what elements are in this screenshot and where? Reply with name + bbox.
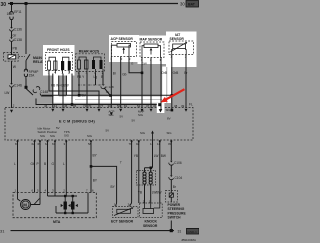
svg-text:5V: 5V	[106, 129, 110, 133]
svg-text:B: B	[44, 162, 46, 166]
relay contact	[26, 54, 30, 60]
mta switch blade	[34, 199, 40, 205]
white highlight vertical pair at IAT	[162, 67, 166, 104]
svg-text:SWITCH: SWITCH	[168, 216, 182, 220]
svg-text:7: 7	[120, 161, 122, 165]
svg-text:Gb: Gb	[31, 162, 35, 166]
wire ecm to mta 2	[34, 140, 36, 193]
wire ecm to psp	[170, 140, 172, 161]
svg-text:FL: FL	[189, 102, 193, 106]
wire C138 to relay	[11, 42, 13, 55]
rear sensor element 1	[92, 60, 95, 69]
white highlight vertical pair from FRONT pin4	[53, 76, 58, 103]
front sensor element 1	[61, 61, 64, 70]
wire ecm to ect 2	[130, 140, 132, 207]
wire 30 bus	[8, 3, 178, 5]
red annotation arrow	[161, 89, 185, 102]
svg-text:C 128: C 128	[105, 85, 114, 89]
PSP switch box	[166, 191, 178, 203]
wire map pin3	[141, 58, 143, 109]
wire ecm to mta 6	[65, 140, 67, 193]
BAT box	[186, 1, 199, 8]
svg-text:37: 37	[146, 104, 150, 108]
wire mta rail bottom	[56, 193, 88, 214]
GND box	[187, 228, 200, 234]
svg-text:OrB: OrB	[161, 71, 167, 75]
svg-text:SIG: SIG	[167, 131, 173, 135]
mta actuator bar 2	[71, 202, 75, 210]
knock piezo element	[143, 209, 154, 214]
connector C106	[170, 161, 172, 163]
node H1 dots	[78, 94, 81, 97]
relay coil	[8, 55, 16, 59]
svg-text:PB: PB	[13, 47, 18, 51]
svg-text:MTA: MTA	[53, 220, 61, 224]
svg-text:PB Y: PB Y	[77, 75, 85, 79]
svg-text:71: 71	[83, 104, 87, 108]
connector C138	[10, 37, 12, 39]
rear bracket wires	[79, 57, 101, 60]
wire mta motor left	[18, 193, 21, 202]
svg-text:12: 12	[150, 142, 154, 146]
svg-text:EF11: EF11	[14, 10, 22, 14]
ECT SENSOR box	[113, 207, 139, 218]
svg-text:39: 39	[181, 104, 185, 108]
knock shield coils	[143, 172, 152, 184]
wire ecm to mta 5	[54, 140, 56, 193]
svg-text:70: 70	[88, 104, 92, 108]
wire knock 2 lower	[150, 184, 152, 203]
rear heater element 1	[78, 60, 81, 69]
svg-text:30: 30	[180, 2, 185, 7]
wire ecm to mta 1	[17, 140, 19, 193]
ECM pin numbers top	[13, 104, 185, 108]
svg-text:L: L	[63, 162, 65, 166]
wire C148 out	[40, 94, 56, 97]
wire labels below ecm	[14, 154, 166, 195]
svg-text:44: 44	[54, 104, 58, 108]
wire mta motor right	[31, 193, 40, 205]
map potentiometer	[144, 44, 158, 48]
svg-text:M: M	[23, 203, 27, 208]
mta pin numbers	[15, 189, 95, 193]
svg-text:LW: LW	[154, 154, 159, 158]
wire ecm to knock drain	[145, 140, 153, 172]
node ect branch dot	[90, 165, 93, 168]
rear sensor element 2	[100, 60, 103, 69]
wire C136 to C138	[11, 31, 13, 37]
wire front pin3 L-run	[49, 74, 99, 109]
wire C146 to ECM	[11, 87, 13, 108]
wire ecm to mta 4	[47, 140, 49, 193]
wire acp pin1	[110, 57, 112, 109]
MTA box	[13, 193, 96, 218]
svg-text:SIG: SIG	[40, 134, 46, 138]
svg-text:52: 52	[137, 104, 141, 108]
svg-text:30: 30	[1, 2, 7, 8]
svg-text:46: 46	[44, 104, 48, 108]
svg-text:JB910048A: JB910048A	[181, 238, 196, 242]
svg-text:45: 45	[64, 104, 68, 108]
mta actuator bar 1	[64, 202, 67, 210]
svg-text:SIG: SIG	[64, 134, 70, 138]
svg-text:L: L	[14, 162, 16, 166]
svg-text:C146: C146	[14, 84, 22, 88]
motor M	[21, 200, 31, 210]
svg-text:C106: C106	[174, 161, 182, 165]
svg-text:BW: BW	[161, 154, 166, 158]
fuse F/PMP 15A	[24, 69, 27, 78]
wire ecm to knock 1	[138, 140, 140, 203]
white highlight horizontal pair	[53, 96, 166, 102]
wire fuse to C136	[11, 22, 13, 28]
FRONT HO2S box	[43, 45, 75, 76]
svg-text:36: 36	[153, 104, 157, 108]
svg-text:SIG: SIG	[87, 134, 93, 138]
wire psp to ground	[170, 221, 172, 231]
svg-text:C136: C136	[14, 28, 22, 32]
wire C128 to H1	[104, 88, 110, 95]
wire ect branch	[91, 166, 117, 206]
wire rear pin4	[86, 73, 88, 108]
wire iat pin1	[171, 55, 173, 111]
svg-text:SIG: SIG	[140, 131, 146, 135]
node bus dot 2	[25, 2, 28, 5]
svg-text:SIG: SIG	[138, 113, 144, 117]
rear pin stubs	[79, 69, 103, 73]
svg-text:35: 35	[73, 104, 77, 108]
fuse EF11	[10, 10, 13, 22]
wire knock 1 lower	[144, 184, 146, 203]
wire contact down to fuse	[25, 61, 27, 71]
wire acp pin3 to map	[129, 57, 142, 73]
wire iat pin2	[185, 55, 187, 109]
svg-text:SIG: SIG	[166, 108, 172, 112]
knock shield dashed box	[137, 171, 156, 186]
svg-text:ACP SENSOR: ACP SENSOR	[111, 37, 134, 41]
svg-text:81: 81	[124, 104, 128, 108]
svg-text:PBV: PBV	[80, 94, 87, 98]
svg-text:MAP SENSOR: MAP SENSOR	[140, 38, 163, 42]
svg-text:5V: 5V	[120, 115, 124, 119]
KNOCK SENSOR box	[140, 203, 163, 218]
mta node dots	[64, 195, 66, 197]
wire map pin1	[160, 58, 162, 105]
svg-text:31: 31	[178, 229, 182, 233]
svg-text:10A: 10A	[7, 12, 14, 16]
ECM exit arrow up	[151, 131, 154, 134]
wire mta rail top	[48, 193, 78, 197]
svg-text:15A: 15A	[29, 73, 36, 77]
iat thermistor	[173, 44, 186, 49]
svg-text:BW: BW	[156, 191, 161, 195]
wire mta bars stubs	[55, 193, 73, 214]
wire left drop x=11	[11, 4, 13, 11]
front heater element 2	[54, 61, 57, 70]
svg-text:Gr: Gr	[106, 90, 109, 94]
svg-text:65: 65	[38, 142, 42, 146]
wire front pair1 right edge	[58, 76, 60, 96]
svg-text:8V: 8V	[167, 117, 171, 121]
dash-dot heater link	[78, 84, 102, 86]
wire H2 riser	[36, 99, 160, 105]
mech link relay to contact	[19, 56, 26, 58]
node iat sig dot	[171, 109, 174, 112]
wire rear pin1	[95, 73, 97, 85]
front pin stubs	[49, 70, 69, 74]
svg-text:C148: C148	[40, 90, 48, 94]
node map rail dot	[141, 72, 144, 75]
wire rear pin3	[78, 73, 80, 95]
svg-text:30: 30	[108, 104, 112, 108]
svg-text:Gb: Gb	[122, 73, 126, 77]
ECM bottom pin numbers	[15, 142, 172, 146]
svg-text:SIG: SIG	[109, 113, 115, 117]
node fuse-out junction	[25, 86, 28, 89]
wire front pin4 edge	[52, 74, 54, 109]
wire acp pin2	[120, 57, 122, 109]
svg-text:PB W+GBW: PB W+GBW	[51, 83, 69, 87]
svg-text:5V: 5V	[132, 119, 136, 123]
svg-text:SIG: SIG	[50, 134, 56, 138]
svg-text:E C M (SIRIUS D4): E C M (SIRIUS D4)	[59, 119, 96, 123]
white highlight vertical pair from FRONT pin2	[66, 76, 71, 98]
node bus dot 1	[10, 2, 13, 5]
connector C104	[170, 175, 172, 177]
ECM exit arrows bottom	[16, 141, 172, 144]
white halo for highlighted ECM entry	[157, 103, 165, 113]
acp potentiometer	[117, 44, 131, 48]
svg-text:SENSOR: SENSOR	[170, 37, 185, 41]
svg-text:YB: YB	[138, 191, 142, 195]
svg-text:OrB: OrB	[173, 71, 179, 75]
ect thermistor	[117, 209, 131, 213]
svg-text:C104: C104	[175, 176, 183, 180]
svg-text:LW: LW	[5, 91, 11, 95]
svg-text:SENSOR: SENSOR	[143, 224, 158, 228]
wire c104 to psp	[170, 179, 172, 190]
svg-text:FRONT HO2S: FRONT HO2S	[47, 48, 70, 52]
connector C148	[33, 87, 40, 93]
node knock drain dot	[150, 167, 153, 170]
front heater element 1	[48, 61, 51, 70]
wire rear pin2 to C128	[102, 73, 104, 84]
ACP SENSOR box	[109, 35, 139, 62]
svg-text:31: 31	[0, 229, 5, 234]
front bracket wires	[49, 57, 69, 61]
wire front pin2 edge	[71, 74, 73, 105]
ECM internal labels	[38, 108, 173, 138]
MAP SENSOR box	[138, 36, 167, 65]
svg-text:50: 50	[117, 104, 121, 108]
wire ecm to mta 3	[39, 140, 41, 193]
svg-text:BAT: BAT	[188, 3, 196, 7]
svg-text:ECT SENSOR: ECT SENSOR	[111, 219, 134, 223]
svg-text:GW: GW	[142, 61, 147, 65]
IAT SENSOR box	[166, 32, 197, 68]
switch to C148	[26, 89, 33, 96]
svg-text:REAR HO2S: REAR HO2S	[79, 50, 100, 54]
front sensor element 2	[68, 61, 71, 70]
svg-text:77: 77	[100, 104, 104, 108]
connector C136	[10, 27, 12, 29]
svg-text:YB: YB	[134, 154, 138, 158]
wire ecm to mta pin6 BY	[90, 140, 92, 193]
svg-text:C138: C138	[14, 38, 22, 42]
wire front pin1	[62, 74, 64, 109]
ECM entry arrows	[10, 109, 188, 116]
svg-text:38: 38	[174, 104, 178, 108]
svg-text:81: 81	[15, 142, 19, 146]
wire x=26 drop	[25, 4, 27, 55]
wire front pair2 left edge	[65, 76, 67, 96]
wire junction stub	[25, 79, 27, 87]
svg-text:64: 64	[45, 142, 49, 146]
wire relay coil down	[11, 62, 13, 84]
wire c106 to c104	[170, 165, 172, 175]
connector C128	[102, 84, 105, 86]
svg-text:GND-1: GND-1	[188, 230, 198, 234]
relay MAIN RELAY dashed enclosure	[3, 53, 18, 62]
node H2 dots	[71, 103, 74, 106]
rear heater element 2	[85, 60, 89, 69]
ECM box dashed	[5, 108, 193, 141]
wire H1 highlighted top edge	[42, 94, 172, 96]
ground bus 31	[11, 230, 175, 232]
wire ecm to knock 3	[159, 140, 161, 203]
svg-text:KNOCK: KNOCK	[145, 220, 158, 224]
wire map pin2	[150, 58, 152, 109]
svg-text:P: P	[37, 162, 39, 166]
connector C146	[10, 83, 12, 85]
